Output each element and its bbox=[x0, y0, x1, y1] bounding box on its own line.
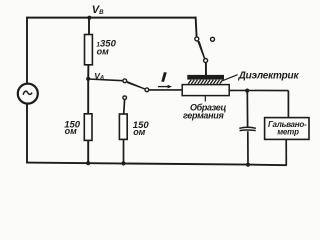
switch S1 contact a bbox=[195, 37, 199, 41]
resistor R2 150 om bbox=[84, 114, 92, 141]
switch S2 pole bbox=[145, 88, 149, 92]
leader to sample label bbox=[204, 96, 206, 102]
resistor R1 1350 om bbox=[85, 35, 93, 65]
switch S1 contact b bbox=[211, 37, 215, 41]
sample box bbox=[182, 85, 229, 96]
dielectric hatch bbox=[188, 80, 223, 84]
AC source G1 bbox=[18, 84, 38, 104]
wire VA to switch S2 bbox=[88, 79, 123, 81]
wire galvanometer to rail bbox=[285, 139, 287, 165]
svg-text:ом: ом bbox=[133, 127, 145, 137]
wire capacitor to rail bbox=[247, 131, 249, 165]
svg-text:метр: метр bbox=[277, 127, 299, 136]
dielectric top plate bbox=[187, 75, 224, 80]
junction rail R2 bbox=[86, 161, 90, 165]
svg-text:ом: ом bbox=[97, 46, 109, 56]
label current I bbox=[161, 72, 167, 82]
svg-text:ом: ом bbox=[65, 126, 77, 136]
junction capacitor top bbox=[245, 89, 249, 93]
wire top rail to switch S1 bbox=[196, 17, 197, 37]
wire R3 to rail bbox=[123, 139, 125, 163]
capacitor C1 bbox=[239, 127, 256, 128]
wire bottom rail bbox=[26, 163, 287, 166]
svg-text:VB: VB bbox=[92, 4, 104, 16]
switch S2 contact a bbox=[123, 79, 127, 83]
wire S2 contact b to R3 bbox=[123, 100, 126, 115]
current arrow I bbox=[158, 86, 169, 88]
svg-text:VA: VA bbox=[94, 71, 104, 82]
svg-text:Диэлектрик: Диэлектрик bbox=[238, 71, 300, 82]
wire left vertical upper bbox=[26, 17, 28, 85]
node VB bbox=[87, 16, 91, 20]
wire VA to R2 bbox=[87, 79, 89, 114]
node VA bbox=[86, 77, 90, 81]
wire top rail bbox=[27, 17, 197, 19]
switch S1 pole bbox=[204, 59, 208, 63]
leader to dielectric label bbox=[223, 75, 238, 81]
switch S2 contact b bbox=[123, 96, 127, 100]
wire S2 pole to sample bbox=[149, 89, 183, 91]
wire right vertical to galvanometer bbox=[287, 91, 289, 118]
wire R1 to VA bbox=[87, 65, 89, 79]
wire sample to right corner bbox=[229, 89, 289, 91]
wire junction to capacitor bbox=[246, 91, 248, 127]
resistor R3 150 om bbox=[119, 114, 127, 139]
junction rail R3 bbox=[121, 161, 125, 165]
wire R2 to rail bbox=[87, 140, 89, 163]
galvanometer box bbox=[265, 118, 309, 140]
switch S2 blade bbox=[126, 81, 146, 91]
junction rail capacitor bbox=[246, 163, 250, 167]
wire VB to R1 bbox=[88, 18, 90, 35]
switch S1 blade bbox=[197, 41, 205, 60]
wire S1 pole to dielectric bbox=[205, 63, 207, 76]
svg-text:германия: германия bbox=[183, 111, 224, 121]
wire left vertical lower bbox=[26, 103, 28, 163]
